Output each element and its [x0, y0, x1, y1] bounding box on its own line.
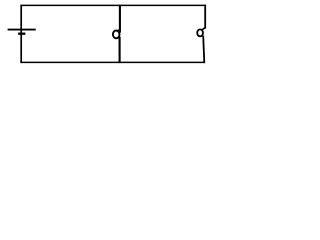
node joint middle upper — [118, 30, 121, 32]
wire right branch lower — [203, 36, 204, 64]
wire top rail — [21, 4, 206, 6]
lamp L1 (middle circle) — [113, 31, 120, 39]
wire left branch — [20, 5, 22, 63]
battery B1 negative plate (short) — [18, 33, 25, 35]
wire middle branch lower — [119, 37, 121, 64]
wire middle branch upper — [119, 5, 121, 33]
wire bottom rail — [20, 61, 204, 63]
node joint right upper — [202, 28, 205, 31]
lamp L2 (right circle) — [197, 29, 203, 36]
wire right branch upper — [204, 5, 206, 29]
battery B1 positive plate (long) — [8, 29, 36, 31]
